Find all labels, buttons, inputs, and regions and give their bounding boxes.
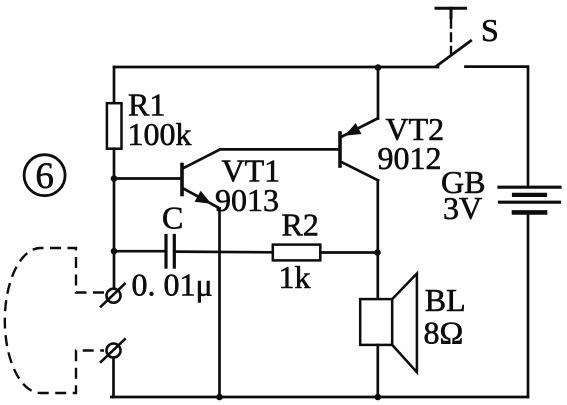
node VT1 base junction [111, 175, 118, 182]
wire battery negative to bottom rail [527, 214, 530, 397]
wire left vertical above R1 [113, 67, 116, 103]
terminal bottom [101, 339, 125, 362]
node top rail junction [375, 64, 382, 71]
terminal top [101, 284, 125, 307]
wire R2 to collector node [320, 251, 377, 254]
svg-text:R2: R2 [282, 207, 319, 243]
wire VT1 base [114, 177, 181, 180]
wire switch to battery positive [466, 67, 529, 186]
wire VT2 collector vertical [376, 180, 379, 299]
capacitor C [166, 236, 174, 268]
svg-text:9012: 9012 [378, 140, 442, 176]
wire VT1 emitter vertical [218, 208, 221, 397]
wire bottom rail [111, 396, 528, 399]
svg-text:C: C [162, 200, 183, 236]
node speaker bottom junction [375, 394, 382, 401]
wire capacitor to R2 [176, 250, 273, 253]
resistor R2 [273, 245, 321, 261]
svg-text:1k: 1k [279, 259, 311, 295]
svg-text:BL: BL [425, 282, 466, 318]
svg-text:S: S [481, 12, 499, 48]
battery GB [499, 187, 560, 212]
switch S pushbutton actuator [436, 8, 466, 55]
svg-text:3V: 3V [443, 190, 482, 226]
transistor VT1 [182, 149, 220, 208]
wire capacitor left [114, 250, 165, 253]
wire top node to VT2 emitter [377, 67, 380, 119]
transistor VT2 [340, 119, 378, 181]
wire speaker to bottom rail [376, 345, 379, 397]
switch S blade [437, 41, 471, 66]
node R2 collector junction [374, 249, 381, 256]
resistor R1 [107, 103, 122, 149]
svg-text:6: 6 [35, 156, 54, 197]
wire terminal bottom to bottom rail [112, 358, 115, 398]
speaker BL [360, 274, 417, 373]
svg-text:9013: 9013 [215, 182, 279, 218]
earphone dashed outline [5, 248, 104, 393]
wire VT1 collector to VT2 base [220, 148, 339, 151]
figure number 6 [24, 155, 65, 197]
svg-text:8Ω: 8Ω [424, 315, 464, 351]
svg-text:100k: 100k [128, 116, 192, 152]
wire left vertical R1 to top terminal [113, 149, 116, 289]
svg-text:0. 01μ: 0. 01μ [132, 267, 213, 303]
node emitter bottom junction [216, 394, 223, 401]
node capacitor junction [111, 248, 118, 255]
wire top rail [114, 66, 438, 69]
